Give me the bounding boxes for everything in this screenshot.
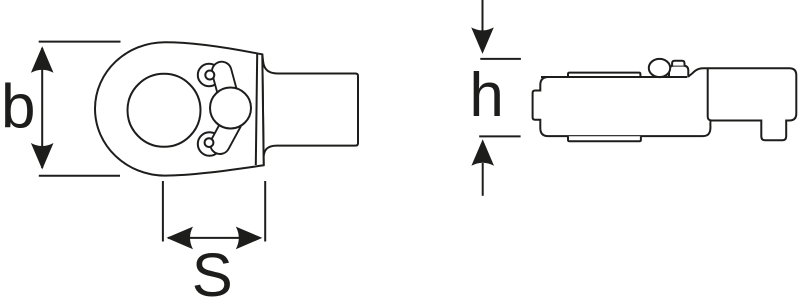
side view: square-drive block left edge — [708, 69, 712, 121]
svg-text:b: b — [1, 72, 35, 141]
dimension h: top shaft — [482, 0, 484, 50]
dimension S: arrow right — [236, 227, 262, 250]
side view: round knob — [649, 59, 670, 77]
side view: bottom plate — [568, 136, 641, 141]
dimension S: left extension line — [162, 181, 164, 242]
dimension b: top extension line — [39, 41, 121, 43]
lever knob circle — [210, 88, 251, 129]
head outline (top view) — [95, 42, 264, 175]
lever pivot circle top — [198, 64, 220, 86]
dimension h: arrow down — [471, 27, 494, 54]
side view: top plate — [568, 73, 640, 77]
dimension S: arrow left — [167, 227, 194, 250]
pivot pin bottom — [205, 138, 214, 147]
dimension b: arrow up — [31, 46, 54, 72]
dimension h: top tick — [480, 58, 521, 60]
lever pivot circle bottom — [198, 132, 221, 155]
pivot pin top — [205, 71, 214, 80]
shank (top view, right of head) — [262, 54, 358, 165]
head right face line — [256, 54, 257, 165]
dimension h: bottom shaft — [482, 163, 484, 196]
svg-text:S: S — [192, 241, 233, 308]
lever arm top — [222, 72, 231, 105]
dimension S: line — [168, 237, 260, 239]
dimension h: arrow up — [471, 139, 494, 166]
drive opening circle — [128, 74, 201, 147]
side view: body top line under knob — [541, 76, 687, 78]
dimension S: right extension line — [264, 181, 266, 242]
side view: lever bump top step — [672, 61, 684, 66]
side view: lever bump base — [669, 66, 688, 78]
lever arm bottom — [220, 122, 232, 144]
side view silhouette — [533, 68, 797, 140]
svg-text:h: h — [469, 61, 503, 130]
dimension b: bottom extension line — [39, 175, 120, 177]
dimension b: arrow down — [31, 143, 54, 170]
dimension h: bottom tick — [479, 135, 520, 137]
dimension b: line — [41, 48, 43, 168]
